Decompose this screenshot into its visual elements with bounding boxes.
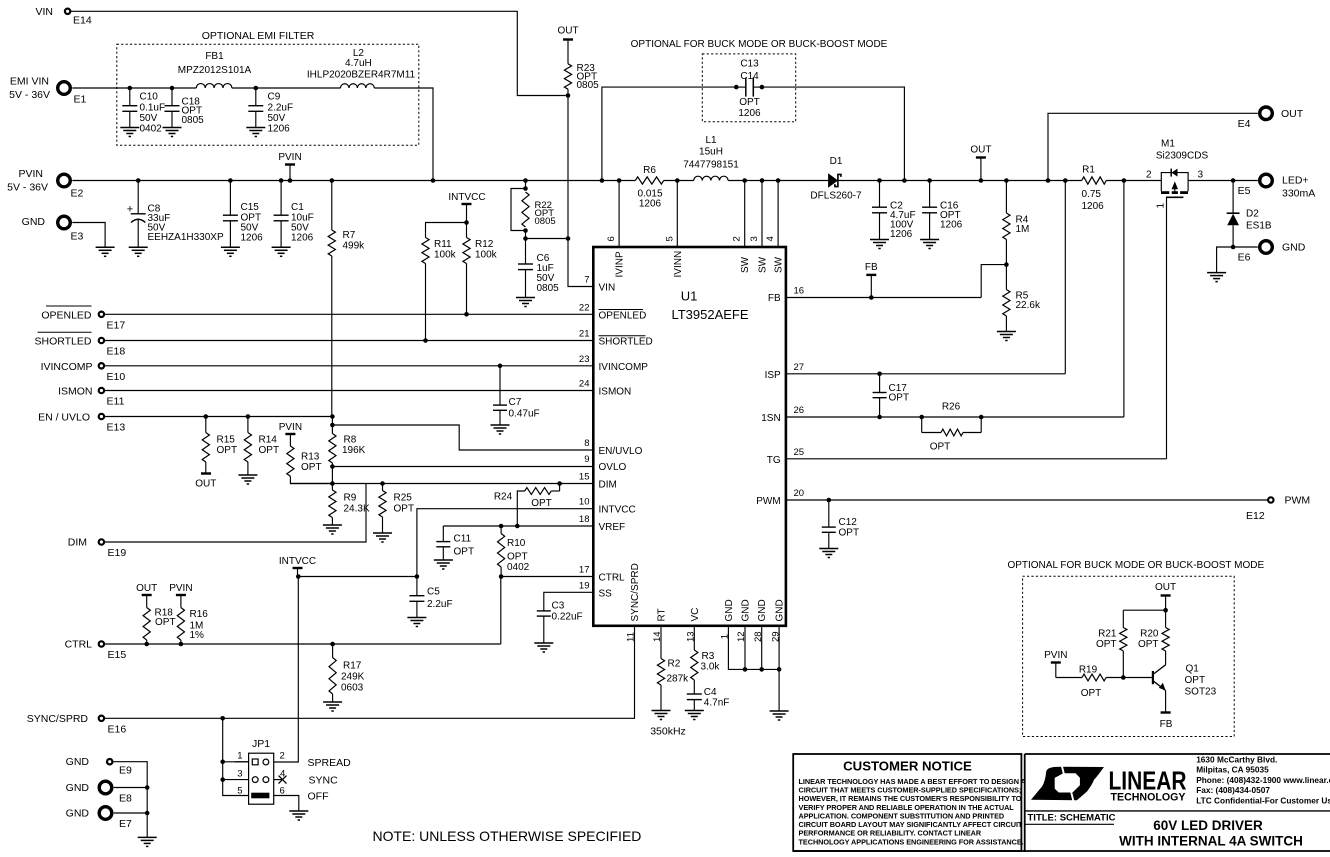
svg-text:3.0k: 3.0k bbox=[701, 662, 721, 673]
wire OUT to R21/R20 bbox=[1123, 609, 1165, 611]
resistor R5 bbox=[1005, 265, 1007, 290]
svg-text:350kHz: 350kHz bbox=[650, 726, 686, 738]
wire ISMON net bbox=[104, 390, 593, 392]
svg-text:R19: R19 bbox=[1079, 665, 1098, 676]
svg-text:3: 3 bbox=[749, 236, 760, 241]
wire OVLO pin9 branch bbox=[332, 466, 593, 468]
svg-text:19: 19 bbox=[579, 580, 590, 591]
svg-text:R3: R3 bbox=[702, 651, 715, 662]
turret E12 (PWM) bbox=[1268, 497, 1273, 502]
ground (C12) bbox=[819, 548, 838, 550]
turret E15 (CTRL) bbox=[99, 641, 104, 646]
wire C13/C14 branch left riser bbox=[602, 87, 736, 180]
svg-text:ISMON: ISMON bbox=[58, 386, 92, 398]
svg-text:PWM: PWM bbox=[1285, 495, 1311, 507]
turret E4 (OUT) bbox=[1260, 107, 1273, 120]
svg-text:50V: 50V bbox=[268, 113, 286, 124]
svg-text:VERIFY PROPER AND RELIABLE OPE: VERIFY PROPER AND RELIABLE OPERATION IN … bbox=[799, 803, 1015, 812]
svg-text:GND: GND bbox=[66, 782, 90, 794]
power tap INTVCC (above R12) bbox=[462, 203, 472, 205]
capacitor C4 bbox=[687, 693, 702, 695]
ground (D2/E6) bbox=[1207, 272, 1226, 274]
svg-text:OPT: OPT bbox=[454, 547, 475, 558]
ground (JP1 pin6) bbox=[289, 810, 308, 812]
svg-text:E10: E10 bbox=[107, 371, 126, 383]
JP1 shunt (pins 5-6) bbox=[251, 793, 269, 799]
svg-text:SYNC/SPRD: SYNC/SPRD bbox=[630, 563, 641, 621]
wire JP1 pin2 to INTVCC bbox=[274, 577, 299, 763]
svg-text:SW: SW bbox=[758, 256, 769, 273]
svg-text:OUT: OUT bbox=[1155, 582, 1176, 593]
svg-text:R8: R8 bbox=[344, 435, 357, 446]
svg-text:1: 1 bbox=[237, 751, 242, 762]
inductor L1 bbox=[694, 176, 728, 180]
wire IVINP pin 6 stub bbox=[617, 178, 622, 183]
ground (C16) bbox=[920, 239, 939, 241]
svg-text:R17: R17 bbox=[343, 661, 362, 672]
wire IVINCOMP net bbox=[104, 365, 593, 367]
svg-text:E11: E11 bbox=[107, 396, 125, 408]
svg-text:PVIN: PVIN bbox=[279, 422, 302, 433]
svg-text:TECHNOLOGY: TECHNOLOGY bbox=[1111, 792, 1187, 804]
wire EN/UVLO pin8 branch bbox=[332, 425, 593, 450]
svg-text:1: 1 bbox=[1155, 203, 1166, 209]
svg-text:E13: E13 bbox=[107, 422, 126, 434]
wire JP1 pin4 stub bbox=[274, 779, 283, 781]
wire SW pin 3 stub bbox=[760, 178, 765, 183]
ground (C1) bbox=[272, 246, 291, 248]
svg-text:15uH: 15uH bbox=[699, 147, 723, 158]
resistor R25 bbox=[380, 481, 385, 486]
ferrite bead FB1 bbox=[196, 84, 232, 88]
wire M1 gate to TG riser bbox=[1166, 197, 1168, 459]
diode D1 (schottky DFLS260-7) bbox=[829, 174, 838, 187]
svg-text:SHORTLED: SHORTLED bbox=[599, 337, 653, 348]
Linear Technology logo bbox=[1031, 767, 1104, 801]
svg-text:NOTE: UNLESS OTHERWISE SPECIFI: NOTE: UNLESS OTHERWISE SPECIFIED bbox=[373, 828, 642, 844]
svg-text:60V LED DRIVER: 60V LED DRIVER bbox=[1153, 818, 1263, 833]
svg-text:OPT: OPT bbox=[259, 445, 280, 456]
wire INTVCC rail with tap bbox=[298, 576, 417, 578]
transistor M1 (PMOS Si2309CDS) bbox=[1161, 173, 1171, 181]
svg-text:OPT: OPT bbox=[1081, 688, 1102, 699]
svg-text:196K: 196K bbox=[342, 445, 366, 456]
customer notice box bbox=[793, 754, 1021, 851]
svg-text:16: 16 bbox=[794, 286, 805, 297]
svg-text:D1: D1 bbox=[830, 156, 843, 167]
svg-text:GND: GND bbox=[741, 599, 752, 621]
svg-text:5: 5 bbox=[237, 785, 242, 796]
svg-text:6: 6 bbox=[280, 785, 285, 796]
resistor R19 bbox=[1056, 677, 1082, 679]
resistor R7 bbox=[330, 178, 335, 183]
resistor R9 bbox=[329, 490, 336, 518]
capacitor C13/C14 bbox=[734, 85, 739, 90]
wire PWM net bbox=[786, 499, 1268, 501]
svg-text:249K: 249K bbox=[341, 672, 365, 683]
svg-text:1206: 1206 bbox=[890, 229, 913, 240]
svg-text:SOT23: SOT23 bbox=[1185, 687, 1217, 698]
svg-text:E6: E6 bbox=[1238, 252, 1251, 264]
dashed box (C13/C14 optional) bbox=[702, 54, 795, 122]
svg-text:C3: C3 bbox=[552, 601, 565, 612]
wire INTVCC pin10 branch bbox=[417, 509, 593, 577]
svg-text:2: 2 bbox=[1146, 170, 1152, 181]
svg-text:INTVCC: INTVCC bbox=[448, 192, 485, 203]
svg-text:IVINN: IVINN bbox=[673, 251, 684, 278]
svg-text:5V - 36V: 5V - 36V bbox=[9, 89, 50, 101]
svg-text:EEHZA1H330XP: EEHZA1H330XP bbox=[148, 232, 224, 243]
svg-text:25: 25 bbox=[794, 447, 805, 458]
svg-text:OUT: OUT bbox=[195, 479, 216, 490]
wire ISP riser bbox=[1064, 181, 1066, 374]
svg-text:GND: GND bbox=[66, 756, 90, 768]
svg-text:0.22uF: 0.22uF bbox=[552, 612, 583, 623]
capacitor C5 bbox=[416, 577, 418, 596]
svg-text:MPZ2012S101A: MPZ2012S101A bbox=[178, 65, 252, 76]
svg-text:50V: 50V bbox=[140, 113, 158, 124]
svg-text:24: 24 bbox=[579, 379, 590, 390]
svg-text:Si2309CDS: Si2309CDS bbox=[1156, 151, 1209, 162]
capacitor C6 bbox=[525, 239, 527, 264]
ground (C2) bbox=[870, 239, 889, 241]
ground (C10) bbox=[120, 127, 139, 129]
resistor R6 (sense) bbox=[635, 177, 663, 184]
wire VIN net: E14 to R23 bottom node bbox=[70, 11, 565, 95]
turret E19 (DIM) bbox=[99, 539, 104, 544]
svg-text:R1: R1 bbox=[1082, 165, 1095, 176]
svg-text:GND: GND bbox=[1282, 242, 1306, 254]
svg-text:Fax: (408)434-0507: Fax: (408)434-0507 bbox=[1196, 785, 1270, 795]
svg-text:9: 9 bbox=[584, 454, 589, 465]
dot L2 junction on rail bbox=[431, 178, 436, 183]
wire GND pins 1,12,28,29 bus bbox=[728, 626, 779, 670]
svg-text:C11: C11 bbox=[454, 534, 472, 545]
transistor Q1 (NPN SOT23) bbox=[1152, 671, 1154, 684]
svg-text:FB1: FB1 bbox=[205, 51, 224, 62]
svg-text:R25: R25 bbox=[394, 493, 413, 504]
svg-text:R6: R6 bbox=[643, 165, 656, 176]
svg-text:OPENLED: OPENLED bbox=[599, 310, 647, 321]
wire 1SN net bbox=[786, 416, 1124, 418]
svg-text:CTRL: CTRL bbox=[65, 639, 93, 651]
svg-text:DIM: DIM bbox=[68, 537, 87, 549]
power tap FB (Q1 emitter) bbox=[1161, 711, 1171, 713]
turret E17 (OPENLED) bbox=[99, 312, 104, 317]
capacitor C8 (electrolytic) bbox=[136, 178, 141, 183]
svg-text:26: 26 bbox=[794, 405, 805, 416]
svg-text:6: 6 bbox=[606, 236, 617, 241]
ground (R2) bbox=[652, 710, 671, 712]
wire SS pin19 / capacitor C3 bbox=[544, 592, 594, 610]
ground (E7/E8/E9) bbox=[138, 836, 157, 838]
svg-text:FB: FB bbox=[768, 293, 781, 304]
svg-text:R11: R11 bbox=[434, 239, 452, 250]
turret E8 (GND) bbox=[99, 781, 112, 794]
turret E2 (PVIN) bbox=[58, 174, 71, 187]
ground (C7) bbox=[491, 424, 510, 426]
resistor R21 bbox=[1122, 610, 1124, 627]
resistor R14 bbox=[246, 414, 251, 419]
resistor R12 bbox=[464, 220, 469, 225]
turret E10 (IVINCOMP) bbox=[99, 363, 104, 368]
dashed box OPTIONAL EMI FILTER bbox=[117, 44, 419, 145]
turret E9 (GND) bbox=[107, 759, 112, 764]
svg-text:1%: 1% bbox=[190, 630, 205, 641]
wire ISP net bbox=[786, 373, 1065, 375]
svg-text:GND: GND bbox=[724, 599, 735, 621]
svg-text:20: 20 bbox=[794, 488, 805, 499]
svg-text:SS: SS bbox=[599, 588, 613, 599]
svg-text:0.75: 0.75 bbox=[1082, 189, 1102, 200]
svg-text:1206: 1206 bbox=[1082, 201, 1105, 212]
svg-text:R24: R24 bbox=[494, 492, 513, 503]
svg-text:OPT: OPT bbox=[217, 445, 238, 456]
svg-text:R2: R2 bbox=[668, 659, 681, 670]
power tap OUT (Q1 box) bbox=[1161, 594, 1171, 596]
wire JP1 select column bbox=[223, 718, 249, 795]
svg-text:E15: E15 bbox=[108, 649, 127, 661]
turret E1 (EMI VIN) bbox=[58, 82, 71, 95]
svg-text:CUSTOMER NOTICE: CUSTOMER NOTICE bbox=[843, 759, 972, 774]
svg-text:DFLS260-7: DFLS260-7 bbox=[810, 191, 862, 202]
svg-text:2.2uF: 2.2uF bbox=[427, 599, 453, 610]
X mark (JP1 pin4 no-connect) bbox=[279, 776, 287, 784]
resistor R8 bbox=[331, 417, 333, 426]
resistor R10 bbox=[498, 534, 505, 568]
svg-text:EN / UVLO: EN / UVLO bbox=[38, 412, 90, 424]
svg-text:E4: E4 bbox=[1238, 118, 1251, 130]
svg-text:1206: 1206 bbox=[241, 233, 264, 244]
svg-text:E14: E14 bbox=[73, 15, 92, 27]
svg-text:SW: SW bbox=[774, 256, 785, 273]
svg-text:OFF: OFF bbox=[308, 791, 329, 803]
svg-text:IHLP2020BZER4R7M11: IHLP2020BZER4R7M11 bbox=[307, 69, 416, 80]
svg-text:E2: E2 bbox=[71, 188, 84, 200]
wire SW pin 2 stub bbox=[742, 178, 747, 183]
svg-text:OPT: OPT bbox=[930, 442, 951, 453]
svg-text:Milpitas, CA 95035: Milpitas, CA 95035 bbox=[1196, 765, 1269, 775]
svg-text:1206: 1206 bbox=[639, 199, 662, 210]
ground (C18) bbox=[163, 127, 182, 129]
svg-text:0402: 0402 bbox=[140, 124, 163, 135]
resistor R3 (VC) bbox=[693, 626, 695, 650]
svg-text:D2: D2 bbox=[1246, 209, 1259, 220]
svg-text:1SN: 1SN bbox=[761, 413, 780, 424]
capacitor C7 bbox=[498, 364, 503, 369]
svg-text:18: 18 bbox=[579, 514, 590, 525]
ground (R25) bbox=[373, 532, 392, 534]
ground (C3) bbox=[534, 642, 553, 644]
capacitor C2 bbox=[877, 178, 882, 183]
resistor R11 bbox=[426, 223, 467, 238]
resistor R24 bbox=[557, 481, 562, 486]
svg-text:21: 21 bbox=[579, 329, 590, 340]
wire TG net bbox=[786, 458, 1167, 460]
wire R23 node down to VIN pin 7 bbox=[568, 96, 593, 287]
svg-text:PVIN: PVIN bbox=[278, 152, 301, 163]
power tap PVIN (on rail) bbox=[288, 178, 293, 183]
wire D2 anode to ground bbox=[1217, 247, 1234, 273]
power tap OUT (on output rail) bbox=[979, 178, 984, 183]
svg-text:E1: E1 bbox=[74, 94, 87, 106]
svg-text:TITLE: SCHEMATIC: TITLE: SCHEMATIC bbox=[1028, 813, 1116, 824]
capacitor C9 bbox=[254, 86, 259, 91]
wire E3 to ground bbox=[72, 223, 105, 248]
capacitor C1 bbox=[279, 178, 284, 183]
wire CTRL net bbox=[104, 643, 501, 645]
svg-text:HOWEVER, IT REMAINS THE CUSTOM: HOWEVER, IT REMAINS THE CUSTOMER'S RESPO… bbox=[799, 794, 1022, 803]
svg-text:LED+: LED+ bbox=[1282, 175, 1309, 187]
svg-text:OPENLED: OPENLED bbox=[41, 309, 92, 321]
title block frame bbox=[1025, 753, 1330, 755]
svg-text:INTVCC: INTVCC bbox=[279, 556, 316, 567]
svg-text:R14: R14 bbox=[259, 435, 278, 446]
svg-text:R21: R21 bbox=[1098, 629, 1117, 640]
turret E16 (SYNC/SPRD) bbox=[99, 716, 104, 721]
svg-text:10: 10 bbox=[579, 497, 590, 508]
svg-text:17: 17 bbox=[579, 565, 590, 576]
svg-text:PWM: PWM bbox=[756, 496, 780, 507]
svg-text:+: + bbox=[127, 204, 133, 216]
svg-text:OPTIONAL FOR BUCK MODE OR BUCK: OPTIONAL FOR BUCK MODE OR BUCK-BOOST MOD… bbox=[1007, 560, 1264, 571]
svg-text:VREF: VREF bbox=[599, 522, 626, 533]
svg-text:R20: R20 bbox=[1140, 629, 1159, 640]
wire FB net with tap bbox=[786, 297, 981, 299]
svg-text:CIRCUIT BOARD LAYOUT MAY SIGNI: CIRCUIT BOARD LAYOUT MAY SIGNIFICANTLY A… bbox=[799, 820, 1023, 829]
wire GND turret bus bbox=[113, 762, 148, 838]
svg-text:E7: E7 bbox=[119, 818, 132, 830]
turret E3 (GND) bbox=[58, 216, 71, 229]
resistor R26 (parallel option) bbox=[919, 415, 924, 420]
wire R22/C6 node to VIN pin column bbox=[526, 238, 566, 240]
svg-text:SPREAD: SPREAD bbox=[308, 757, 352, 769]
svg-text:3: 3 bbox=[1198, 170, 1204, 181]
wire base bbox=[1123, 677, 1153, 679]
wire OUT net to turret E4 bbox=[1046, 178, 1051, 183]
turret E11 (ISMON) bbox=[99, 388, 104, 393]
svg-text:GND: GND bbox=[757, 599, 768, 621]
svg-text:M1: M1 bbox=[1161, 139, 1175, 150]
svg-text:DIM: DIM bbox=[599, 480, 617, 491]
svg-text:OPT: OPT bbox=[1185, 675, 1206, 686]
ground (C4) bbox=[685, 710, 704, 712]
svg-text:VIN: VIN bbox=[35, 6, 53, 18]
svg-text:SHORTLED: SHORTLED bbox=[35, 336, 92, 348]
svg-text:3: 3 bbox=[237, 769, 242, 780]
svg-text:1M: 1M bbox=[1016, 224, 1030, 235]
svg-text:4.7uH: 4.7uH bbox=[345, 58, 372, 69]
turret E13 (EN/UVLO) bbox=[99, 414, 104, 419]
wire PVIN rail bbox=[72, 180, 635, 182]
svg-text:LINEAR TECHNOLOGY HAS MADE A B: LINEAR TECHNOLOGY HAS MADE A BEST EFFORT… bbox=[799, 777, 1027, 786]
wire L2 output to PVIN rail bbox=[374, 88, 433, 181]
turret E18 (SHORTLED) bbox=[99, 338, 104, 343]
wire C13/C14 branch right riser bbox=[762, 87, 905, 180]
svg-text:R16: R16 bbox=[190, 609, 209, 620]
svg-text:GND: GND bbox=[775, 599, 786, 621]
svg-text:5V - 36V: 5V - 36V bbox=[7, 182, 48, 194]
turret E6 (GND) bbox=[1231, 245, 1236, 250]
svg-text:C5: C5 bbox=[427, 587, 440, 598]
svg-text:499k: 499k bbox=[343, 241, 366, 252]
svg-text:R26: R26 bbox=[942, 402, 961, 413]
svg-text:R13: R13 bbox=[301, 452, 320, 463]
svg-text:E9: E9 bbox=[119, 765, 132, 777]
svg-text:1630 McCarthy Blvd.: 1630 McCarthy Blvd. bbox=[1196, 755, 1277, 765]
svg-text:IVINP: IVINP bbox=[615, 251, 626, 277]
svg-text:OPTIONAL EMI FILTER: OPTIONAL EMI FILTER bbox=[202, 30, 315, 42]
svg-text:PERFORMANCE OR RELIABILITY. C: PERFORMANCE OR RELIABILITY. CONTACT LINE… bbox=[799, 829, 982, 838]
capacitor C16 bbox=[927, 178, 932, 183]
svg-text:LT3952AEFE: LT3952AEFE bbox=[671, 307, 748, 322]
svg-text:OPTIONAL FOR BUCK MODE OR BUCK: OPTIONAL FOR BUCK MODE OR BUCK-BOOST MOD… bbox=[631, 39, 888, 50]
svg-text:22.6k: 22.6k bbox=[1016, 300, 1041, 311]
svg-text:OUT: OUT bbox=[136, 583, 157, 594]
svg-text:ISP: ISP bbox=[765, 370, 781, 381]
svg-text:1206: 1206 bbox=[291, 233, 314, 244]
svg-text:OUT: OUT bbox=[1281, 108, 1304, 120]
resistor R15 bbox=[204, 414, 209, 419]
svg-text:OPT: OPT bbox=[301, 462, 322, 473]
ground (C6) bbox=[516, 297, 535, 299]
svg-text:0.47uF: 0.47uF bbox=[509, 409, 540, 420]
svg-text:287k: 287k bbox=[667, 674, 690, 685]
resistor R22 with bypass wire bbox=[523, 178, 528, 183]
capacitor C15 bbox=[228, 178, 233, 183]
inductor L2 bbox=[341, 84, 375, 88]
svg-text:C12: C12 bbox=[839, 517, 858, 528]
svg-text:23: 23 bbox=[579, 354, 590, 365]
svg-text:L1: L1 bbox=[705, 135, 717, 146]
wire EMI VIN rail bbox=[72, 87, 196, 89]
turret E7 (GND) bbox=[99, 807, 112, 820]
svg-text:0805: 0805 bbox=[182, 115, 205, 126]
wire DIM line to pin 15 bbox=[290, 483, 593, 485]
power tap PVIN (Q1 box) bbox=[1051, 661, 1061, 663]
svg-text:FB: FB bbox=[1160, 719, 1173, 730]
svg-text:APPLICATION. COMPONENT SUBSTI: APPLICATION. COMPONENT SUBSTITUTION AND … bbox=[799, 811, 1005, 820]
ground (E3) bbox=[96, 246, 115, 248]
svg-text:E3: E3 bbox=[71, 231, 84, 243]
wire FB riser to R4/R5 node bbox=[981, 265, 1006, 298]
svg-text:TECHNOLOGY APPLICATIONS ENGINE: TECHNOLOGY APPLICATIONS ENGINEERING FOR … bbox=[799, 837, 1024, 846]
resistor R4 bbox=[1004, 178, 1009, 183]
svg-text:VC: VC bbox=[690, 608, 701, 622]
wire 1SN riser bbox=[1123, 181, 1125, 418]
turret E14 (VIN) bbox=[65, 9, 70, 14]
svg-text:OUT: OUT bbox=[970, 145, 991, 156]
svg-text:CIRCUIT THAT MEETS CUSTOMER-SU: CIRCUIT THAT MEETS CUSTOMER-SUPPLIED SPE… bbox=[799, 785, 1022, 794]
svg-text:OPT: OPT bbox=[1096, 639, 1117, 650]
svg-text:4.7nF: 4.7nF bbox=[704, 698, 730, 709]
ground (IC GND pins) bbox=[770, 710, 789, 712]
capacitor C17 bbox=[877, 372, 882, 377]
svg-text:PVIN: PVIN bbox=[18, 168, 43, 180]
wire SYNC/SPRD net bbox=[104, 626, 634, 719]
wire CTRL net riser bbox=[500, 577, 502, 645]
svg-text:E12: E12 bbox=[1246, 510, 1265, 522]
resistor R13 with PVIN tap bbox=[285, 433, 295, 435]
svg-text:Phone: (408)432-1900 www.line: Phone: (408)432-1900 www.linear.c bbox=[1196, 775, 1330, 785]
svg-text:IVINCOMP: IVINCOMP bbox=[599, 362, 649, 373]
wire IVINN pin 5 stub bbox=[675, 178, 680, 183]
svg-text:GND: GND bbox=[22, 216, 46, 228]
svg-text:C13: C13 bbox=[740, 59, 759, 70]
svg-text:SYNC/SPRD: SYNC/SPRD bbox=[27, 713, 89, 725]
svg-text:R12: R12 bbox=[475, 239, 494, 250]
svg-text:JP1: JP1 bbox=[252, 738, 270, 750]
